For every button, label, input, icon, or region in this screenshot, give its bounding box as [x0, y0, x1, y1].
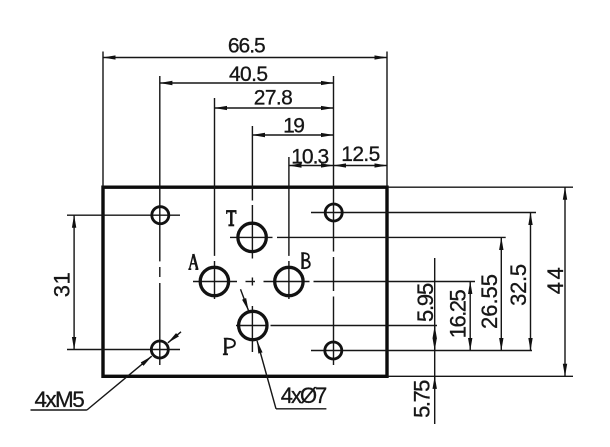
dimension 27.8	[215, 107, 334, 109]
mounting hole top-right	[325, 204, 342, 221]
leader 4xØ7	[276, 408, 326, 410]
dimension 5.95	[434, 258, 436, 424]
dimension 5.75	[434, 376, 436, 389]
center line top-left mount row	[67, 214, 180, 216]
dimension 19	[252, 134, 333, 136]
extension line bottom edge right	[387, 375, 573, 377]
dimension 44	[564, 187, 566, 376]
svg-text:4xØ7: 4xØ7	[281, 383, 327, 408]
extension line right edge	[386, 52, 388, 188]
label P	[223, 338, 235, 354]
svg-text:44: 44	[543, 265, 568, 294]
extension line top edge right	[387, 186, 573, 188]
mounting hole top-left	[152, 207, 169, 224]
svg-text:10.3: 10.3	[291, 146, 328, 169]
port T	[238, 223, 266, 251]
center line T/P column	[251, 126, 253, 201]
label A	[188, 254, 198, 269]
svg-text:16.25: 16.25	[446, 289, 471, 338]
svg-text:31: 31	[49, 272, 74, 297]
extension line left edge	[102, 52, 104, 188]
svg-text:40.5: 40.5	[229, 63, 267, 86]
dimension 16.25	[469, 282, 471, 351]
svg-text:66.5: 66.5	[228, 35, 265, 58]
label T	[226, 210, 236, 225]
svg-text:32.5: 32.5	[506, 264, 531, 306]
svg-text:12.5: 12.5	[341, 143, 379, 166]
center line port B column	[288, 157, 290, 256]
center line bottom-right mount row	[311, 350, 532, 352]
plate outline	[103, 187, 387, 376]
center line port P row	[236, 325, 267, 327]
svg-text:5.95: 5.95	[413, 283, 438, 322]
dimension 12.5	[334, 165, 388, 167]
center line left mounting column	[159, 76, 161, 261]
dimension 10.3	[289, 165, 334, 167]
svg-text:26.55: 26.55	[477, 274, 502, 329]
leader 4xM5	[31, 409, 87, 411]
dimension 31	[73, 215, 75, 349]
port A	[200, 267, 228, 295]
mounting hole bottom-right	[325, 342, 342, 359]
center line bottom-left mount row	[67, 349, 180, 351]
label B	[301, 253, 310, 268]
svg-text:27.8: 27.8	[254, 87, 292, 110]
center line top-right mount row	[311, 212, 536, 214]
center line port T row	[230, 236, 273, 238]
svg-text:5.75: 5.75	[410, 380, 435, 418]
center line port A column	[214, 98, 216, 256]
port B	[275, 267, 303, 295]
dimension 66.5	[103, 57, 387, 59]
dimension 26.55	[500, 237, 502, 350]
dimension 40.5	[160, 82, 334, 84]
mounting hole bottom-left	[151, 341, 168, 358]
port P	[239, 311, 267, 339]
svg-text:4xM5: 4xM5	[34, 387, 84, 412]
center line right mounting column	[333, 76, 335, 252]
dimension 32.5	[530, 213, 532, 351]
svg-text:19: 19	[283, 115, 304, 138]
center line ports A-B row	[193, 281, 237, 283]
